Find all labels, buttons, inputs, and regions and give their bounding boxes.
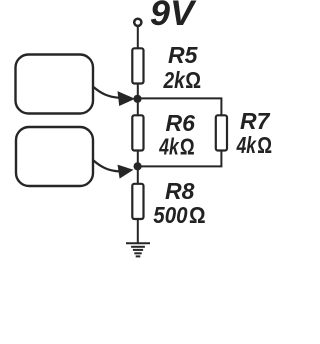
resistor R7 — [216, 115, 227, 150]
wire: R6 bottom to node B — [137, 151, 139, 184]
resistor R5 — [132, 48, 143, 83]
9V supply terminal — [134, 19, 141, 26]
arrow from box 2 to node B (head) — [118, 165, 134, 179]
svg-text:Ω: Ω — [185, 67, 201, 93]
svg-text:4k: 4k — [236, 132, 257, 158]
resistor R8 — [132, 184, 143, 219]
node A junction dot — [133, 95, 141, 103]
wire: node A to R7 branch top — [138, 98, 222, 115]
svg-text:R5: R5 — [168, 42, 199, 68]
arrow from box 2 to node B (shaft) — [94, 161, 120, 172]
svg-text:4k: 4k — [159, 133, 180, 159]
callout box 2 — [16, 127, 93, 186]
svg-text:Ω: Ω — [257, 132, 272, 158]
arrow from box 1 to node A (head) — [118, 91, 136, 106]
svg-text:R8: R8 — [165, 178, 195, 204]
svg-text:R7: R7 — [240, 108, 271, 134]
wire: R7 bottom to node B — [138, 151, 222, 167]
resistor R6 — [132, 115, 143, 150]
arrow from box 1 to node A (shaft) — [94, 87, 120, 98]
svg-text:R6: R6 — [166, 110, 196, 136]
svg-text:2k: 2k — [163, 67, 186, 93]
svg-text:9V: 9V — [150, 0, 197, 33]
node B junction dot — [134, 162, 142, 170]
wire: terminal to R5 — [137, 25, 139, 48]
callout box 1 — [16, 55, 94, 114]
wire: R5 to node A — [137, 84, 139, 116]
wire: R8 to ground — [137, 219, 139, 243]
svg-text:Ω: Ω — [189, 202, 206, 228]
ground — [126, 243, 150, 256]
svg-text:Ω: Ω — [180, 133, 195, 159]
svg-text:500: 500 — [153, 202, 187, 228]
